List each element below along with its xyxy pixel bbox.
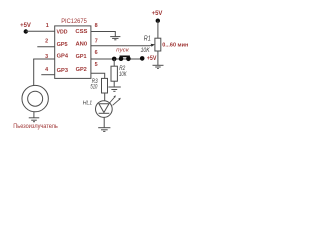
wire R1 top to +5V bbox=[157, 21, 159, 39]
ground piezo bbox=[29, 118, 40, 122]
wire R1 bottom to ground bbox=[157, 51, 159, 65]
svg-text:AN0: AN0 bbox=[76, 42, 88, 48]
wire pin3 horizontal bbox=[33, 58, 55, 60]
wire R3 to LED bbox=[104, 93, 106, 101]
svg-text:пуск: пуск bbox=[116, 47, 129, 53]
svg-text:Пьезоизлучатель: Пьезоизлучатель bbox=[13, 124, 58, 130]
node dot +5V R1 top bbox=[156, 19, 160, 23]
IC U1 PIC12675 body bbox=[55, 26, 91, 79]
svg-text:R2: R2 bbox=[119, 66, 126, 72]
wire pin1 to +5V bbox=[26, 30, 55, 32]
svg-text:5: 5 bbox=[95, 62, 98, 68]
wire pin2 stub bbox=[37, 46, 54, 48]
wire pin4 stub bbox=[41, 74, 54, 76]
svg-text:CSS: CSS bbox=[75, 29, 88, 35]
LED arrow 1 bbox=[110, 97, 115, 103]
wire junction to R2 bbox=[113, 59, 115, 66]
LED arrow 2 bbox=[113, 99, 120, 105]
svg-text:GP3: GP3 bbox=[57, 68, 69, 74]
piezo BQ1 outer circle bbox=[22, 85, 48, 111]
ground R1 bbox=[153, 65, 164, 68]
svg-text:7: 7 bbox=[95, 38, 98, 44]
resistor R2 body bbox=[111, 66, 117, 81]
LED HL1 cathode bar bbox=[99, 112, 110, 114]
LED HL1 triangle bbox=[99, 104, 109, 113]
wire piezo bottom bbox=[33, 112, 35, 118]
wire pin8 to ground bbox=[91, 32, 115, 37]
button SB1 contact right bbox=[126, 57, 131, 62]
node dot +5V button bbox=[140, 56, 145, 61]
svg-text:10K: 10K bbox=[141, 48, 151, 54]
svg-text:VDD: VDD bbox=[57, 30, 68, 36]
wire R2 bottom to ground bbox=[113, 81, 115, 87]
svg-text:PIC12675: PIC12675 bbox=[61, 18, 87, 25]
svg-text:R1: R1 bbox=[144, 36, 151, 43]
svg-text:GP5: GP5 bbox=[57, 42, 68, 48]
resistor R3 body bbox=[102, 78, 108, 93]
button SB1 actuator bar bbox=[120, 56, 130, 58]
node dot junction R2 bbox=[112, 57, 117, 62]
svg-text:1: 1 bbox=[46, 23, 49, 29]
LED HL1 circle bbox=[96, 101, 113, 118]
svg-text:510: 510 bbox=[90, 84, 97, 90]
ground R2 bbox=[108, 87, 120, 91]
svg-text:+5V: +5V bbox=[152, 11, 163, 17]
svg-text:8: 8 bbox=[95, 23, 98, 29]
node dot +5V pin1 bbox=[24, 29, 28, 33]
svg-text:0...60 мин: 0...60 мин bbox=[162, 42, 188, 48]
wire pin3 down to piezo bbox=[33, 59, 35, 86]
svg-text:GP4: GP4 bbox=[57, 54, 69, 60]
svg-text:HL1: HL1 bbox=[83, 101, 93, 107]
svg-text:GP1: GP1 bbox=[76, 54, 87, 60]
piezo BQ1 inner circle bbox=[28, 91, 43, 106]
wire LED to ground bbox=[103, 117, 105, 127]
svg-text:4: 4 bbox=[45, 67, 48, 73]
svg-text:10K: 10K bbox=[119, 72, 127, 78]
button SB1 contact left bbox=[119, 56, 124, 61]
R1 wiper arrow bbox=[150, 44, 156, 47]
wire pin5 to R3 bbox=[91, 73, 105, 78]
svg-text:+5V: +5V bbox=[147, 56, 157, 62]
wire pin7 to R1 wiper bbox=[91, 45, 150, 47]
ground pin8 bbox=[110, 37, 120, 40]
svg-text:+5V: +5V bbox=[20, 23, 31, 29]
svg-text:6: 6 bbox=[95, 50, 98, 56]
wire pin6 to +5V through button bbox=[91, 58, 142, 60]
svg-text:GP2: GP2 bbox=[76, 67, 87, 73]
potentiometer R1 body bbox=[155, 38, 161, 51]
svg-text:2: 2 bbox=[45, 38, 48, 44]
ground LED bbox=[98, 128, 110, 132]
